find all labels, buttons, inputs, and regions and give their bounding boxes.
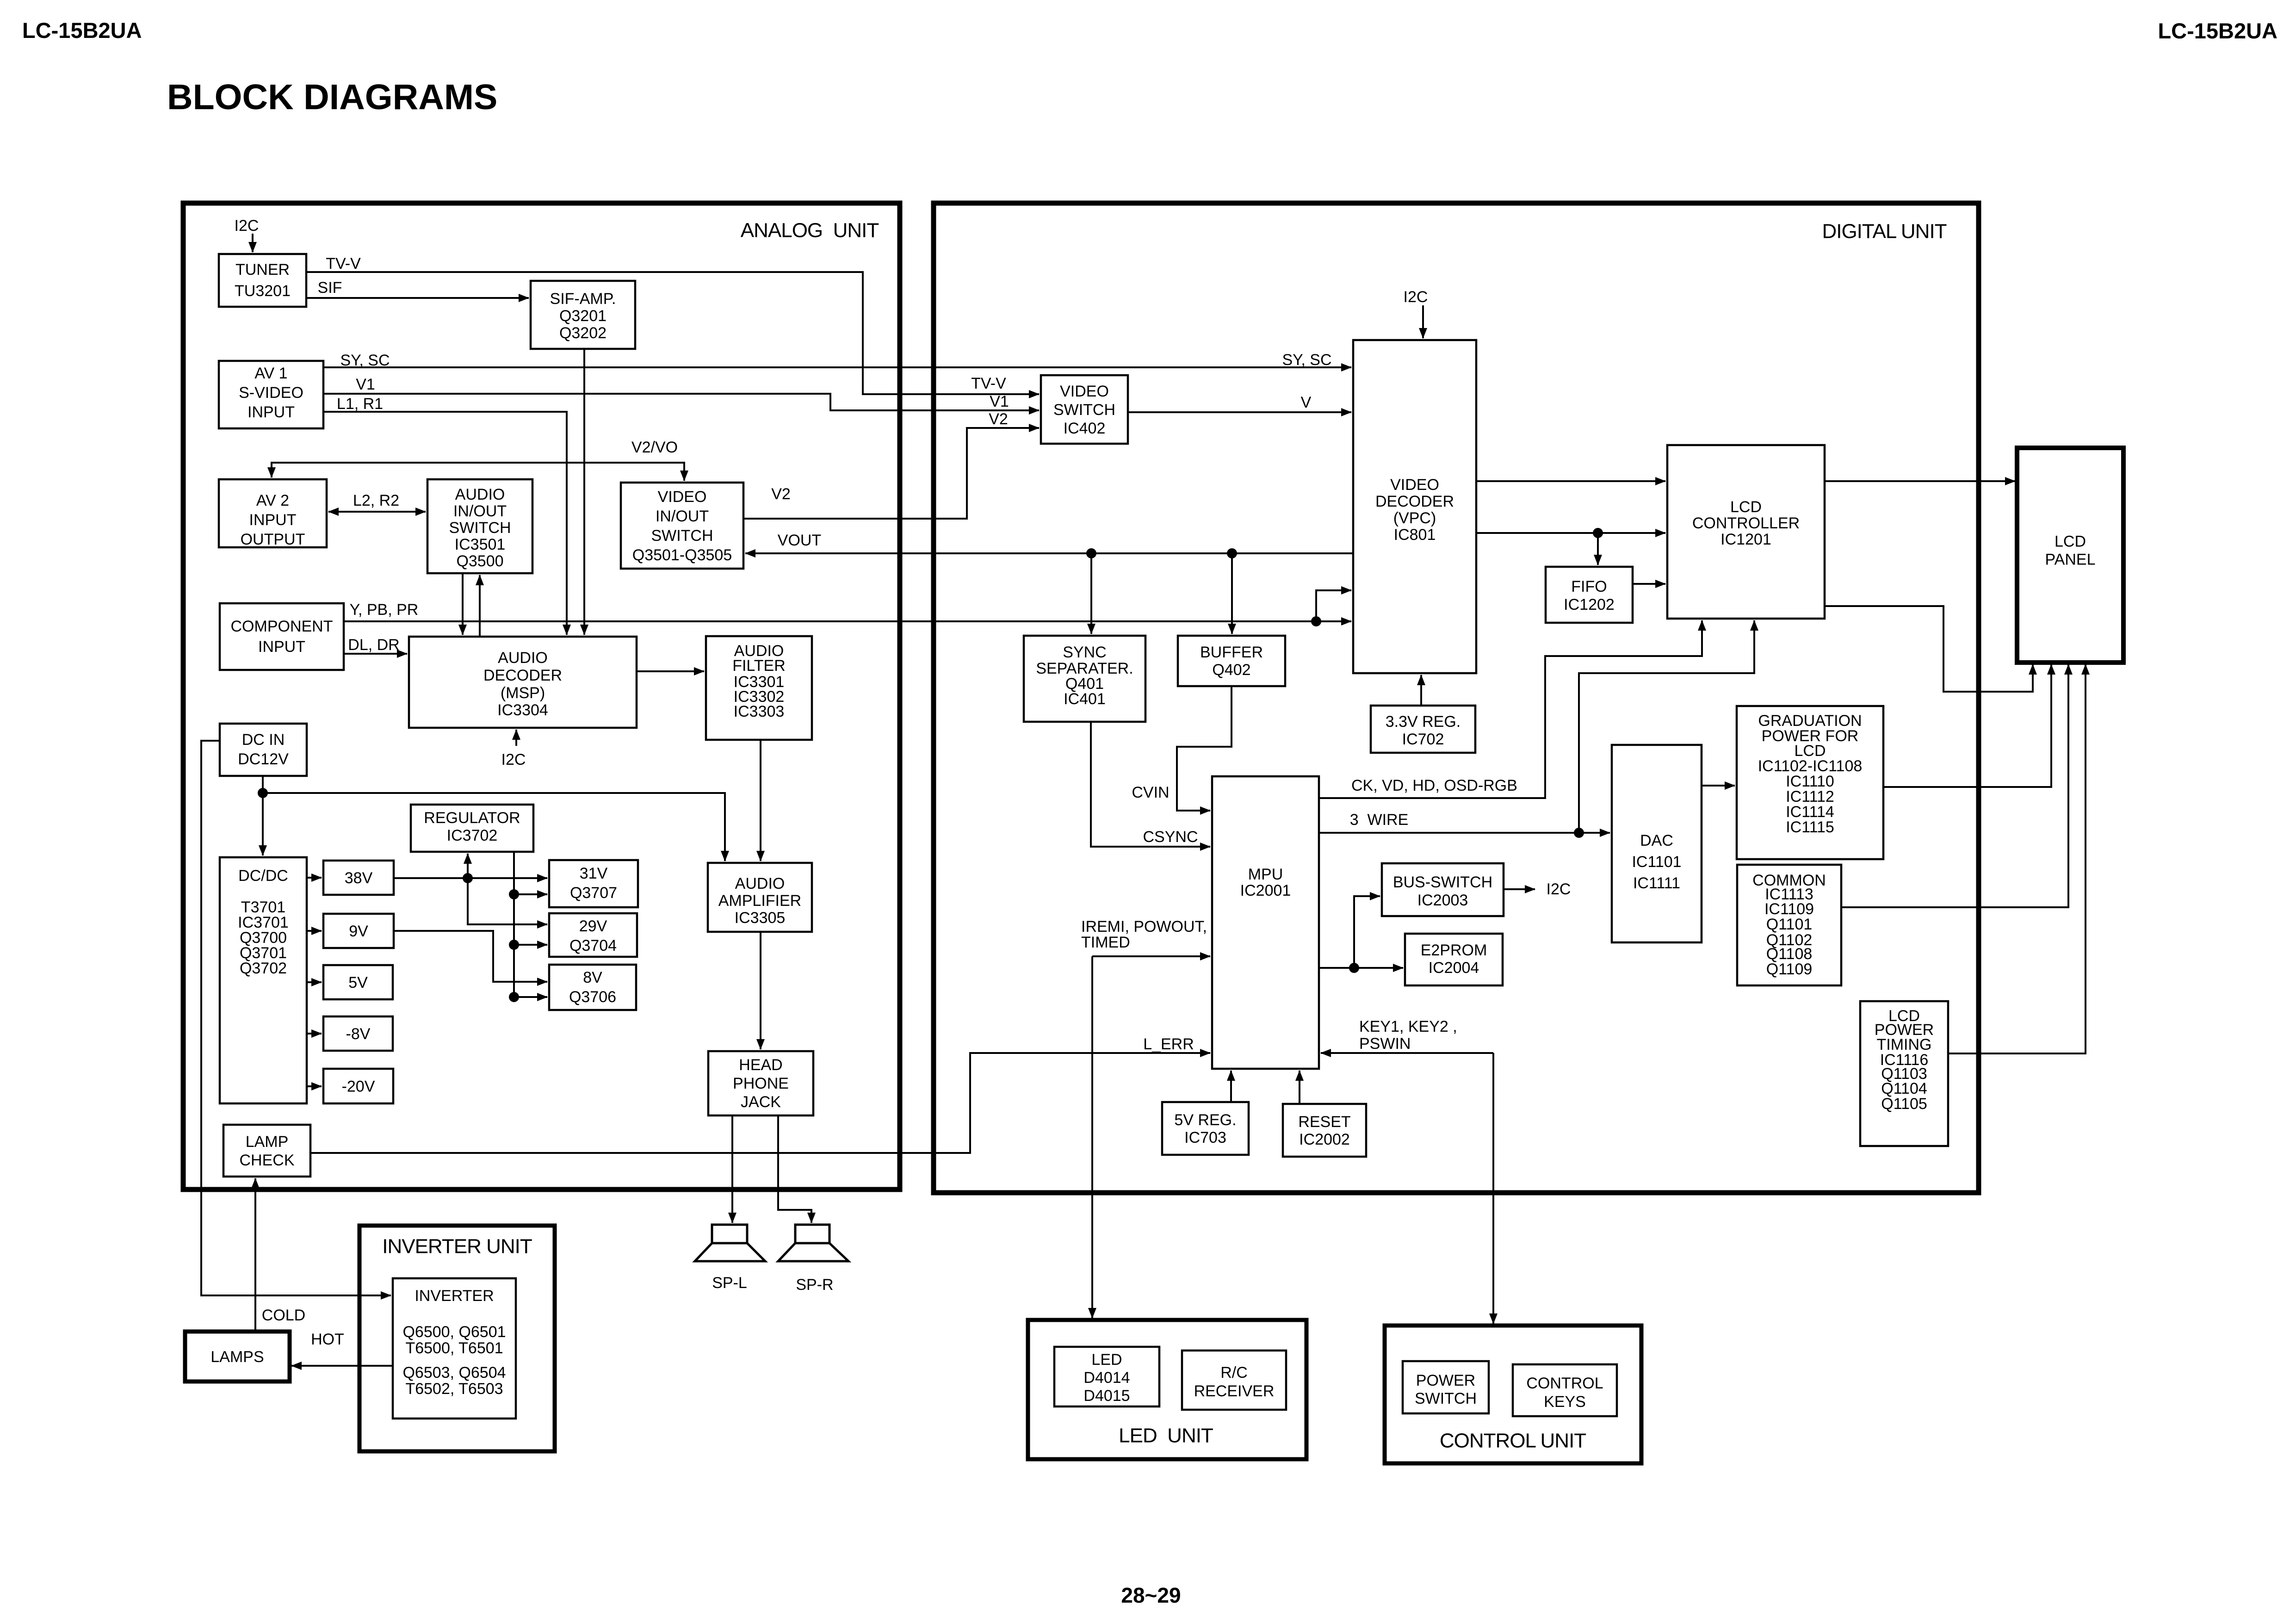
svg-text:IC801: IC801 — [1394, 526, 1436, 544]
svg-text:TUNER: TUNER — [235, 261, 290, 279]
svg-text:SWITCH: SWITCH — [1053, 401, 1115, 419]
svg-text:D4014: D4014 — [1083, 1369, 1130, 1387]
svg-text:Q6503, Q6504: Q6503, Q6504 — [402, 1364, 506, 1381]
svg-text:DC/DC: DC/DC — [238, 867, 288, 885]
svg-text:T6502, T6503: T6502, T6503 — [405, 1380, 503, 1398]
svg-text:LAMP: LAMP — [246, 1133, 289, 1151]
svg-text:IN/OUT: IN/OUT — [453, 502, 507, 520]
svg-text:LC-15B2UA: LC-15B2UA — [22, 18, 142, 43]
svg-text:IC3303: IC3303 — [734, 703, 785, 720]
svg-text:(MSP): (MSP) — [501, 684, 545, 702]
svg-text:29V: 29V — [579, 917, 607, 935]
svg-text:TV-V: TV-V — [326, 255, 361, 273]
svg-text:INVERTER UNIT: INVERTER UNIT — [382, 1235, 532, 1258]
svg-text:DAC: DAC — [1640, 832, 1673, 849]
svg-text:IC1202: IC1202 — [1564, 596, 1615, 613]
svg-text:IN/OUT: IN/OUT — [656, 508, 709, 525]
svg-text:IC3702: IC3702 — [447, 827, 498, 844]
svg-text:CONTROL: CONTROL — [1526, 1375, 1603, 1392]
svg-text:FIFO: FIFO — [1571, 578, 1607, 595]
svg-text:SWITCH: SWITCH — [651, 527, 713, 545]
svg-text:DC IN: DC IN — [242, 731, 285, 749]
svg-text:VIDEO: VIDEO — [1060, 383, 1109, 400]
svg-text:CVIN: CVIN — [1132, 784, 1169, 801]
svg-text:LED UNIT: LED UNIT — [1119, 1425, 1213, 1447]
svg-text:SIF-AMP.: SIF-AMP. — [550, 290, 616, 308]
svg-text:Q3707: Q3707 — [570, 884, 617, 902]
svg-text:AV 2: AV 2 — [256, 492, 289, 509]
svg-text:I2C: I2C — [1547, 880, 1571, 898]
svg-text:Q3702: Q3702 — [240, 960, 287, 977]
svg-text:I2C: I2C — [235, 217, 259, 235]
svg-text:REGULATOR: REGULATOR — [424, 809, 520, 827]
svg-text:DECODER: DECODER — [1375, 493, 1454, 510]
svg-text:(VPC): (VPC) — [1393, 509, 1436, 527]
svg-text:IC402: IC402 — [1064, 420, 1106, 437]
svg-text:IC1201: IC1201 — [1720, 531, 1771, 548]
svg-text:OUTPUT: OUTPUT — [241, 531, 305, 548]
svg-text:CK, VD, HD, OSD-RGB: CK, VD, HD, OSD-RGB — [1351, 777, 1517, 794]
svg-text:IC3304: IC3304 — [497, 701, 548, 719]
svg-text:CONTROLLER: CONTROLLER — [1692, 514, 1800, 532]
svg-text:PANEL: PANEL — [2045, 551, 2096, 569]
svg-text:CSYNC: CSYNC — [1143, 828, 1198, 846]
svg-text:AUDIO: AUDIO — [498, 649, 548, 667]
svg-text:E2PROM: E2PROM — [1421, 942, 1487, 959]
svg-text:FILTER: FILTER — [732, 657, 786, 675]
svg-text:AUDIO: AUDIO — [455, 486, 505, 503]
svg-text:SY, SC: SY, SC — [1282, 351, 1331, 369]
svg-text:IC3305: IC3305 — [735, 909, 786, 927]
svg-text:IC1115: IC1115 — [1786, 818, 1834, 836]
svg-text:V1: V1 — [356, 376, 375, 393]
svg-text:S-VIDEO: S-VIDEO — [239, 384, 303, 402]
svg-text:JACK: JACK — [741, 1093, 781, 1111]
svg-text:V2: V2 — [771, 485, 791, 503]
svg-text:Y, PB, PR: Y, PB, PR — [350, 601, 419, 619]
svg-text:PSWIN: PSWIN — [1359, 1035, 1411, 1053]
svg-text:RECEIVER: RECEIVER — [1194, 1382, 1275, 1400]
svg-text:VIDEO: VIDEO — [658, 488, 707, 506]
svg-text:CONTROL UNIT: CONTROL UNIT — [1440, 1430, 1586, 1452]
svg-text:IC401: IC401 — [1064, 690, 1106, 708]
svg-text:LED: LED — [1091, 1351, 1122, 1369]
svg-text:SIF: SIF — [318, 279, 342, 297]
svg-text:3 WIRE: 3 WIRE — [1350, 811, 1409, 829]
svg-text:HOT: HOT — [311, 1331, 344, 1348]
svg-text:Q3704: Q3704 — [569, 937, 617, 954]
svg-text:DL, DR: DL, DR — [348, 636, 399, 654]
svg-text:D4015: D4015 — [1083, 1387, 1130, 1405]
svg-text:LAMPS: LAMPS — [210, 1348, 264, 1366]
svg-text:Q1109: Q1109 — [1766, 960, 1813, 978]
svg-text:Q1105: Q1105 — [1881, 1095, 1927, 1113]
svg-text:VIDEO: VIDEO — [1390, 476, 1439, 494]
svg-text:AV 1: AV 1 — [254, 365, 287, 382]
svg-text:SP-R: SP-R — [796, 1276, 833, 1294]
svg-text:HEAD: HEAD — [739, 1056, 782, 1074]
svg-text:COLD: COLD — [262, 1307, 305, 1324]
svg-text:IC2003: IC2003 — [1417, 892, 1468, 909]
svg-text:IC2004: IC2004 — [1429, 959, 1479, 977]
svg-text:IC703: IC703 — [1184, 1129, 1226, 1146]
svg-text:DIGITAL UNIT: DIGITAL UNIT — [1822, 220, 1946, 243]
svg-text:Q6500, Q6501: Q6500, Q6501 — [402, 1323, 506, 1341]
svg-text:TIMED: TIMED — [1081, 934, 1130, 951]
svg-text:RESET: RESET — [1298, 1113, 1350, 1131]
svg-text:KEYS: KEYS — [1544, 1393, 1586, 1411]
svg-text:I2C: I2C — [501, 751, 526, 768]
svg-text:SY, SC: SY, SC — [340, 352, 390, 369]
svg-text:5V REG.: 5V REG. — [1174, 1111, 1236, 1129]
svg-text:R/C: R/C — [1220, 1364, 1248, 1381]
svg-text:KEY1, KEY2 ,: KEY1, KEY2 , — [1359, 1018, 1457, 1035]
svg-text:INPUT: INPUT — [249, 511, 297, 529]
svg-text:SWITCH: SWITCH — [1415, 1390, 1477, 1407]
svg-text:Q3500: Q3500 — [456, 552, 503, 570]
svg-text:-20V: -20V — [342, 1078, 375, 1096]
svg-text:IC2001: IC2001 — [1240, 882, 1291, 899]
svg-text:Q3501-Q3505: Q3501-Q3505 — [632, 546, 732, 564]
svg-text:SWITCH: SWITCH — [449, 519, 511, 537]
svg-text:Q3202: Q3202 — [559, 324, 606, 342]
svg-text:SP-L: SP-L — [712, 1274, 747, 1292]
svg-text:COMPONENT: COMPONENT — [231, 618, 333, 635]
svg-text:IC2002: IC2002 — [1299, 1131, 1350, 1148]
svg-text:Q3706: Q3706 — [569, 988, 616, 1006]
svg-text:LCD: LCD — [2055, 533, 2086, 551]
svg-text:V2/VO: V2/VO — [631, 439, 678, 456]
svg-text:9V: 9V — [349, 923, 368, 940]
svg-text:POWER: POWER — [1416, 1372, 1475, 1389]
svg-text:ANALOG UNIT: ANALOG UNIT — [741, 219, 879, 242]
svg-text:INPUT: INPUT — [248, 403, 295, 421]
svg-text:8V: 8V — [583, 969, 602, 986]
svg-text:LC-15B2UA: LC-15B2UA — [2158, 19, 2277, 43]
svg-text:31V: 31V — [580, 865, 608, 882]
svg-text:L_ERR: L_ERR — [1143, 1035, 1194, 1053]
svg-text:5V: 5V — [348, 974, 368, 991]
svg-text:IC3501: IC3501 — [455, 536, 506, 553]
svg-text:L1, R1: L1, R1 — [337, 395, 383, 413]
svg-text:DC12V: DC12V — [238, 750, 289, 768]
svg-text:INVERTER: INVERTER — [415, 1287, 494, 1305]
svg-text:AUDIO: AUDIO — [735, 875, 785, 892]
svg-text:V2: V2 — [989, 410, 1008, 428]
svg-text:-8V: -8V — [346, 1025, 371, 1043]
svg-text:28~29: 28~29 — [1121, 1583, 1181, 1607]
svg-text:IC702: IC702 — [1402, 731, 1444, 748]
svg-text:Q3201: Q3201 — [559, 307, 606, 325]
svg-text:I2C: I2C — [1404, 288, 1428, 306]
svg-text:Q1101: Q1101 — [1766, 916, 1813, 933]
svg-text:IREMI, POWOUT,: IREMI, POWOUT, — [1081, 918, 1207, 935]
svg-text:DECODER: DECODER — [483, 667, 562, 684]
svg-text:VOUT: VOUT — [778, 532, 821, 549]
svg-text:SYNC: SYNC — [1063, 644, 1106, 661]
svg-text:V1: V1 — [990, 393, 1009, 410]
svg-text:38V: 38V — [345, 869, 373, 887]
svg-text:V: V — [1301, 394, 1312, 411]
svg-text:AMPLIFIER: AMPLIFIER — [718, 892, 801, 910]
svg-text:CHECK: CHECK — [239, 1152, 294, 1169]
svg-text:3.3V REG.: 3.3V REG. — [1386, 713, 1461, 731]
svg-text:LCD: LCD — [1730, 498, 1762, 516]
svg-text:BLOCK DIAGRAMS: BLOCK DIAGRAMS — [167, 77, 497, 117]
svg-text:T6500, T6501: T6500, T6501 — [405, 1339, 503, 1357]
svg-text:BUFFER: BUFFER — [1200, 644, 1263, 661]
svg-text:PHONE: PHONE — [733, 1075, 789, 1092]
svg-text:MPU: MPU — [1248, 866, 1283, 883]
svg-text:IC1101: IC1101 — [1632, 853, 1681, 871]
svg-text:IC1111: IC1111 — [1633, 874, 1680, 892]
svg-text:INPUT: INPUT — [258, 638, 305, 656]
svg-text:Q402: Q402 — [1212, 661, 1250, 679]
svg-text:L2, R2: L2, R2 — [353, 492, 399, 509]
svg-text:TV-V: TV-V — [971, 375, 1006, 392]
svg-text:TU3201: TU3201 — [235, 282, 291, 300]
svg-text:BUS-SWITCH: BUS-SWITCH — [1393, 873, 1492, 891]
